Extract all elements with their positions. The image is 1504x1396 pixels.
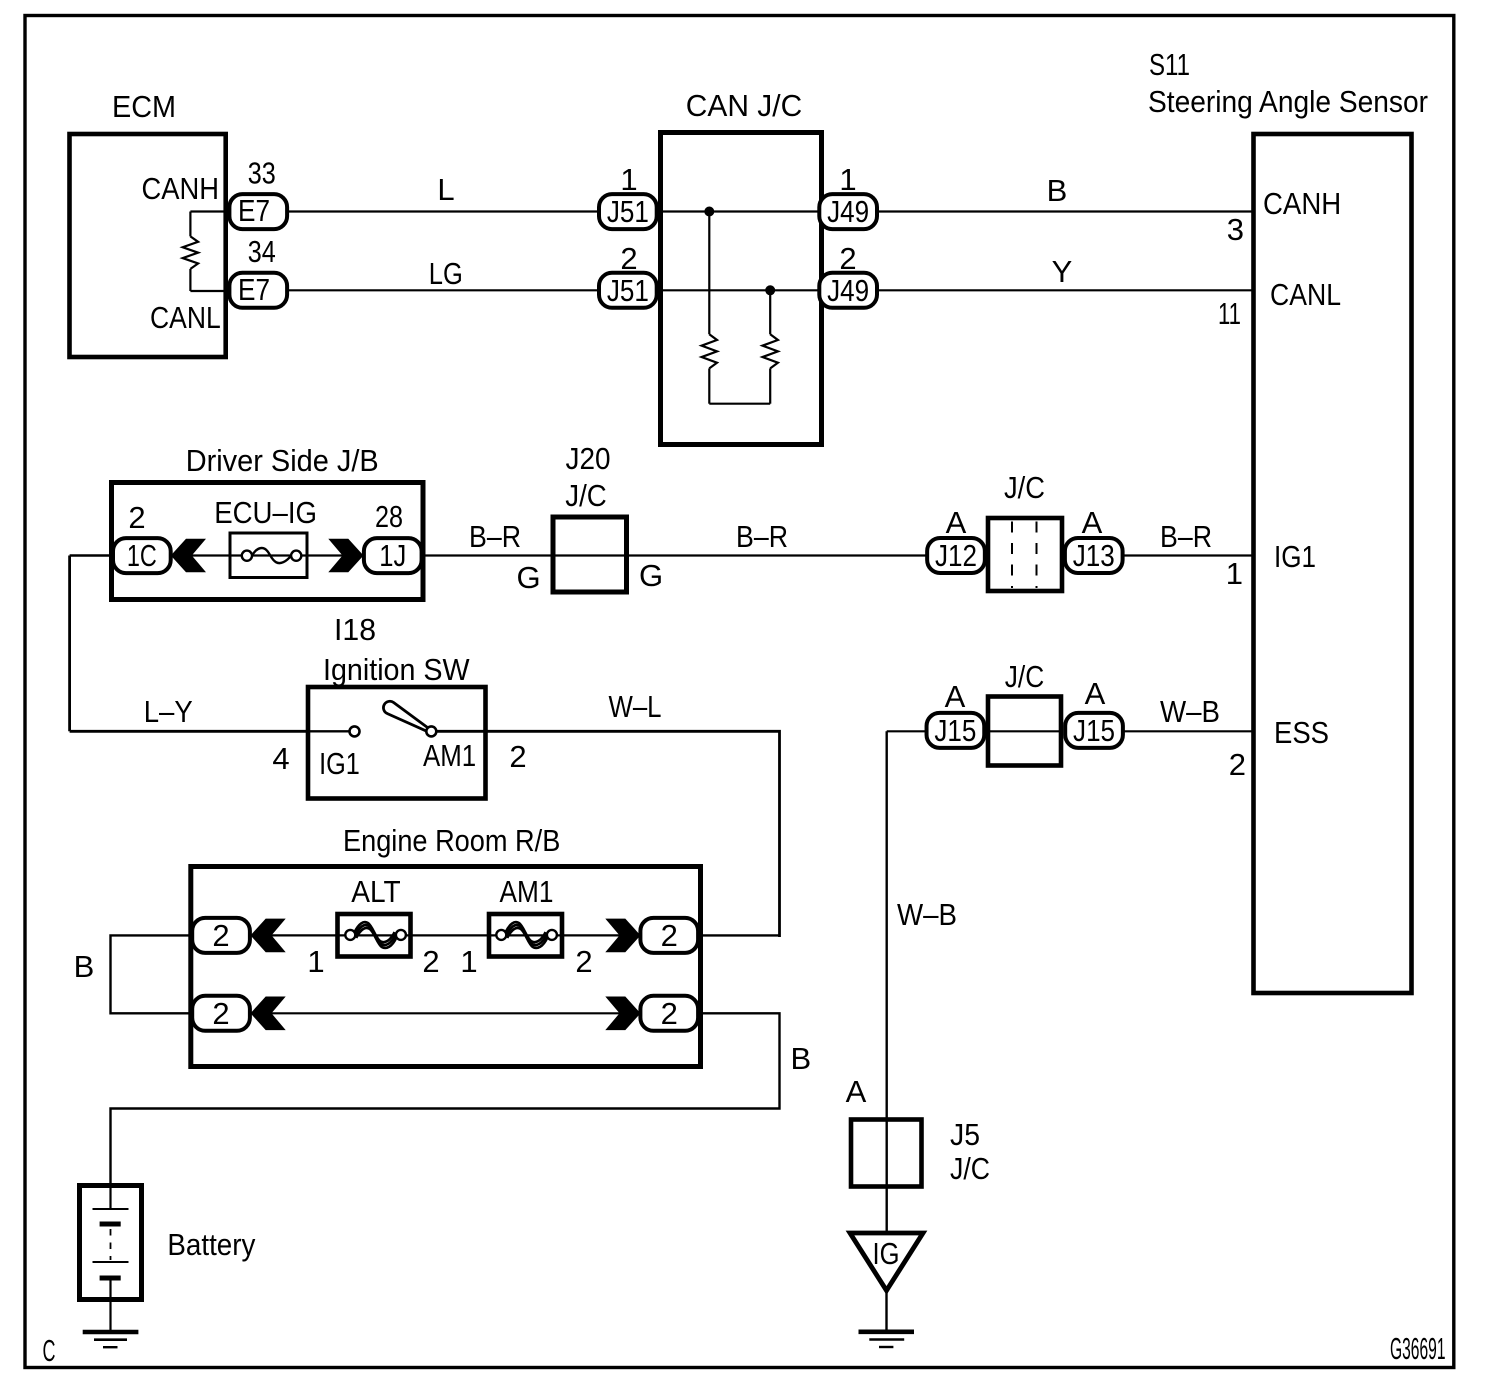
fuse box ECU-IG [230, 533, 307, 578]
wire B (engine row2 to battery) [111, 1013, 780, 1187]
svg-text:2: 2 [212, 918, 229, 953]
fuse contact circle right (ALT) [396, 930, 406, 940]
resistor (CAN J/C terminating 1) [702, 334, 717, 368]
svg-text:Engine Room R/B: Engine Room R/B [343, 823, 560, 858]
switch contact circle AM1 [426, 726, 436, 736]
connector oval J15 left (pin A) [927, 713, 985, 748]
svg-text:J15: J15 [1073, 713, 1115, 748]
svg-text:ECU–IG: ECU–IG [214, 495, 317, 530]
svg-text:1: 1 [460, 944, 477, 979]
svg-text:A: A [1082, 505, 1103, 540]
wire B-R (1J to J12 through J20) [420, 554, 990, 556]
dashed line 2 (J12 J/C) [1036, 522, 1038, 589]
junction box J/C (J15) [988, 697, 1061, 766]
svg-text:Driver Side J/B: Driver Side J/B [186, 443, 379, 478]
fuse contact circle right (AM1) [547, 930, 557, 940]
wire (battery to ground) [109, 1278, 111, 1331]
svg-text:1J: 1J [379, 538, 406, 573]
svg-text:AM1: AM1 [500, 874, 554, 909]
connector oval 1J (pin 28) [364, 538, 422, 573]
junction box J20 J/C [553, 517, 627, 592]
svg-text:J/C: J/C [1004, 470, 1045, 505]
wire B-R (J13 to S11 IG1) [1060, 554, 1255, 556]
svg-text:2: 2 [661, 918, 678, 953]
battery dashed link [110, 1229, 112, 1260]
connector oval J49 (pin 1) [819, 194, 877, 229]
svg-text:CANH: CANH [142, 171, 220, 206]
svg-text:CANL: CANL [150, 300, 221, 335]
svg-text:B: B [74, 949, 95, 984]
wire B (J49-1 to S11 CANH) [877, 210, 1255, 212]
svg-text:A: A [945, 679, 966, 714]
svg-text:CAN J/C: CAN J/C [686, 88, 802, 123]
arrow engine row2 (right) [605, 997, 640, 1031]
wire (J15 left lead) [887, 730, 929, 732]
svg-text:2: 2 [128, 500, 145, 535]
connector oval 1C (pin 2) [113, 538, 171, 573]
wire (engine row 1) [221, 934, 669, 936]
svg-text:J20: J20 [566, 441, 611, 476]
resistor (CAN terminating inside ECM) [183, 212, 226, 292]
svg-text:A: A [846, 1074, 867, 1109]
svg-text:ECM: ECM [112, 89, 176, 124]
wire W-B (J15 to S11 ESS) [1122, 730, 1255, 732]
svg-text:2: 2 [839, 241, 856, 276]
svg-text:ESS: ESS [1274, 715, 1329, 750]
svg-text:Y: Y [1052, 254, 1073, 289]
svg-text:IG1: IG1 [319, 746, 360, 781]
svg-text:W–L: W–L [609, 689, 662, 724]
svg-text:3: 3 [1227, 212, 1244, 247]
box CAN J/C [661, 133, 822, 445]
wire (engine row 2) [221, 1012, 669, 1014]
svg-text:B–R: B–R [469, 519, 521, 554]
ground symbol (battery) [83, 1332, 139, 1347]
svg-text:I18: I18 [334, 612, 376, 647]
connector oval J15 right (pin A) [1065, 713, 1123, 748]
fuse contact circle left (ECU-IG) [242, 551, 252, 561]
svg-text:Ignition SW: Ignition SW [323, 652, 470, 687]
fuse element wave (ECU-IG) [252, 548, 291, 563]
wire (battery top stub) [109, 1187, 111, 1209]
wire (inside J15 J/C) [988, 730, 1061, 732]
svg-text:4: 4 [272, 741, 289, 776]
svg-text:LG: LG [429, 256, 463, 291]
svg-text:J13: J13 [1073, 538, 1115, 573]
svg-text:1C: 1C [127, 538, 157, 573]
wire (CAN J/C row 2 internal) [655, 289, 820, 291]
dashed line 1 (J12 J/C) [1011, 522, 1013, 589]
connector oval J49 (pin 2) [819, 273, 877, 308]
box I18 Ignition SW [308, 687, 486, 799]
svg-text:J/C: J/C [1005, 659, 1045, 694]
box Driver Side J/B [112, 483, 424, 600]
svg-text:CANH: CANH [1263, 186, 1341, 221]
battery plate short 1 [100, 1222, 121, 1227]
fusible link braid (ALT) [355, 922, 397, 948]
svg-text:2: 2 [620, 241, 637, 276]
ground symbol (IG) [859, 1332, 915, 1347]
wire L-Y horizontal [70, 730, 310, 733]
svg-text:J15: J15 [934, 713, 976, 748]
arrow into 1C (left) [171, 539, 206, 573]
fuse contact circle right (ECU-IG) [291, 551, 301, 561]
connector oval 2 (row2 right) [640, 996, 698, 1031]
connector oval J13 (pin A) [1065, 538, 1123, 573]
box ECM [70, 134, 226, 357]
junction dot 1 [704, 207, 714, 217]
svg-text:11: 11 [1218, 296, 1241, 331]
svg-text:1: 1 [307, 944, 324, 979]
battery plate long 2 [93, 1261, 129, 1263]
arrow engine row1 (right) [605, 919, 640, 953]
wire W-B vertical (to J5) [886, 731, 888, 1233]
wire (junction 2 drop) [769, 290, 771, 334]
svg-text:J49: J49 [827, 194, 869, 229]
svg-text:AM1: AM1 [423, 738, 476, 773]
svg-text:E7: E7 [238, 193, 270, 228]
wire Y (J49-2 to S11 CANL) [877, 289, 1255, 291]
connector oval E7 (pin 33) [229, 194, 287, 229]
svg-text:B–R: B–R [736, 519, 788, 554]
svg-text:2: 2 [422, 944, 439, 979]
svg-text:J51: J51 [607, 273, 649, 308]
battery plate short 2 [100, 1276, 121, 1281]
junction dot 2 [765, 285, 775, 295]
svg-text:A: A [946, 505, 967, 540]
fuse box ALT [338, 914, 411, 957]
arrow out of fuse (right) [328, 539, 363, 573]
connector oval 2 (row1 left) [192, 918, 250, 953]
wire (IG triangle to ground) [885, 1291, 887, 1331]
svg-text:G: G [639, 558, 663, 593]
svg-text:IG1: IG1 [1274, 539, 1316, 574]
svg-text:J/C: J/C [565, 478, 607, 513]
svg-text:CANL: CANL [1270, 277, 1341, 312]
svg-text:B: B [1047, 173, 1068, 208]
connector oval 2 (row1 right) [640, 918, 698, 953]
svg-text:B: B [790, 1041, 811, 1076]
arrow engine row2 (left) [251, 997, 286, 1031]
svg-text:2: 2 [661, 996, 678, 1031]
svg-text:G36691: G36691 [1390, 1331, 1446, 1366]
junction box J/C (J12-J13) [988, 518, 1062, 591]
wire B loop (left) [111, 935, 193, 1013]
box Engine Room R/B [191, 867, 701, 1067]
svg-text:C: C [43, 1333, 56, 1368]
svg-text:ALT: ALT [351, 874, 400, 909]
svg-text:J51: J51 [607, 194, 649, 229]
svg-text:2: 2 [575, 944, 592, 979]
wire (1C to left edge) [70, 554, 114, 557]
svg-text:A: A [1085, 676, 1106, 711]
svg-text:1: 1 [839, 162, 856, 197]
svg-text:B–R: B–R [1160, 519, 1212, 554]
svg-text:L: L [437, 172, 454, 207]
battery box [80, 1186, 142, 1300]
wire (CAN J/C row 1 internal) [655, 210, 820, 212]
fuse contact circle left (AM1) [496, 930, 506, 940]
svg-text:33: 33 [248, 156, 276, 191]
wire (resistor 2 to link) [769, 368, 771, 403]
svg-text:1: 1 [1226, 556, 1243, 591]
wire (J/B internal row) [170, 554, 365, 556]
wire L (E7-33 to J51-1) [286, 210, 600, 212]
svg-text:IG: IG [873, 1236, 900, 1271]
wire (ignition IG1 stub) [308, 730, 350, 732]
fuse box AM1 [489, 914, 562, 957]
wire (junction 1 drop) [708, 212, 710, 335]
svg-text:2: 2 [212, 996, 229, 1031]
svg-text:J49: J49 [827, 273, 869, 308]
connector oval 2 (row2 left) [192, 996, 250, 1031]
box S11 Steering Angle Sensor [1254, 134, 1412, 993]
wire (engine row1 right to W-L) [697, 934, 780, 936]
svg-text:L–Y: L–Y [144, 694, 193, 729]
wire W-L (AM1 to engine room) [436, 731, 780, 937]
svg-text:E7: E7 [238, 272, 270, 307]
fuse contact circle left (ALT) [345, 930, 355, 940]
svg-text:Battery: Battery [167, 1227, 255, 1262]
connector oval J12 (pin A) [927, 538, 985, 573]
fusible link braid (AM1) [506, 922, 548, 948]
connector oval J51 (pin 2) [599, 273, 657, 308]
svg-text:J/C: J/C [950, 1151, 990, 1186]
svg-text:G: G [517, 560, 541, 595]
svg-text:J12: J12 [935, 538, 977, 573]
svg-text:W–B: W–B [897, 897, 957, 932]
svg-text:2: 2 [509, 739, 526, 774]
arrow engine row1 (left) [251, 919, 286, 953]
svg-text:34: 34 [248, 234, 276, 269]
svg-text:J5: J5 [950, 1117, 980, 1152]
svg-text:Steering Angle Sensor: Steering Angle Sensor [1148, 84, 1428, 119]
svg-text:W–B: W–B [1160, 694, 1220, 729]
ground triangle IG [850, 1233, 923, 1291]
svg-text:2: 2 [1229, 747, 1246, 782]
switch lever (ignition) [383, 701, 430, 732]
junction box J5 J/C [851, 1120, 922, 1187]
wire L-Y vertical [68, 556, 71, 732]
svg-text:1: 1 [620, 162, 637, 197]
connector oval J51 (pin 1) [599, 194, 657, 229]
wire (bottom link between resistors) [709, 403, 770, 405]
svg-text:S11: S11 [1149, 47, 1190, 82]
battery plate long 1 [93, 1208, 129, 1210]
svg-text:28: 28 [375, 499, 403, 534]
wire LG (E7-34 to J51-2) [286, 289, 600, 291]
wire (resistor 1 to link) [708, 368, 710, 403]
switch contact circle IG1 [350, 726, 360, 736]
connector oval E7 (pin 34) [229, 273, 287, 308]
resistor (CAN J/C terminating 2) [763, 334, 778, 368]
